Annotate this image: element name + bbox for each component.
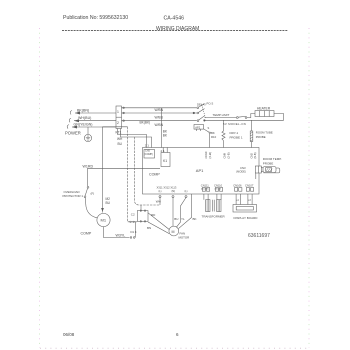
svg-text:BU: BU (106, 201, 111, 205)
svg-text:HEATER: HEATER (257, 106, 271, 110)
svg-text:CN3: CN3 (240, 166, 246, 170)
svg-text:(BK-W): (BK-W) (215, 188, 222, 190)
svg-text:CN2: CN2 (249, 153, 253, 159)
svg-text:M1: M1 (101, 218, 107, 223)
svg-text:WH: WH (156, 200, 161, 204)
svg-text:M: M (172, 230, 175, 234)
svg-text:W1RD: W1RD (83, 164, 94, 168)
svg-text:AP2: AP2 (195, 125, 200, 129)
svg-text:COMP: COMP (81, 232, 92, 236)
svg-text:RD: RD (151, 213, 156, 217)
svg-text:2 1: 2 1 (145, 144, 150, 148)
svg-text:MOTOR: MOTOR (179, 236, 190, 240)
svg-text:BK: BK (163, 134, 168, 138)
svg-text:S: S (208, 126, 210, 130)
svg-text:(L): (L) (185, 190, 188, 193)
svg-text:CN110: CN110 (214, 184, 223, 188)
svg-text:(F): (F) (91, 192, 95, 196)
svg-text:CN111: CN111 (201, 184, 209, 188)
svg-text:06/08: 06/08 (63, 332, 75, 337)
svg-text:AP1: AP1 (196, 168, 204, 173)
svg-text:DISPLAY BOARD: DISPLAY BOARD (234, 216, 259, 220)
svg-text:R10: R10 (211, 135, 217, 139)
svg-text:KT1: KT1 (116, 131, 122, 135)
svg-text:CN106: CN106 (233, 184, 242, 188)
svg-text:CN107: CN107 (245, 184, 254, 188)
svg-text:L3: L3 (248, 199, 251, 202)
svg-text:Publication No: 5995632130: Publication No: 5995632130 (63, 15, 128, 21)
svg-text:BK: BK (193, 217, 197, 221)
svg-text:6: 6 (176, 332, 179, 337)
svg-text:CN9: CN9 (223, 153, 227, 159)
svg-text:W/BN: W/BN (155, 123, 164, 127)
svg-text:K1: K1 (163, 159, 167, 163)
svg-text:5V MODEL-ON: 5V MODEL-ON (223, 122, 246, 126)
svg-text:TRANSFORMER: TRANSFORMER (202, 215, 226, 219)
svg-text:DELAY: DELAY (197, 102, 206, 106)
svg-text:PROTECTOR 1: PROTECTOR 1 (63, 194, 84, 198)
svg-text:CA-4546: CA-4546 (164, 16, 185, 22)
svg-text:BK(BN): BK(BN) (77, 109, 89, 113)
svg-text:M2: M2 (106, 197, 111, 201)
svg-text:BU: BU (174, 217, 178, 221)
svg-text:BN: BN (147, 226, 151, 230)
svg-text:PROBE: PROBE (263, 161, 274, 165)
svg-text:BU: BU (118, 142, 123, 146)
svg-text:PO.S: PO.S (207, 101, 214, 105)
svg-text:W3YL: W3YL (116, 233, 126, 237)
svg-text:(BU-BR): (BU-BR) (201, 188, 209, 190)
svg-text:(2-B): (2-B) (226, 152, 230, 158)
svg-text:YL: YL (181, 217, 185, 221)
svg-text:L4: L4 (236, 199, 239, 202)
svg-text:PROBE 1: PROBE 1 (230, 135, 243, 139)
svg-text:BK(BK): BK(BK) (140, 121, 151, 125)
svg-text:63611697: 63611697 (248, 233, 270, 239)
svg-text:2 1: 2 1 (161, 149, 166, 153)
svg-text:1: 1 (117, 110, 119, 114)
svg-text:(M): (M) (172, 190, 176, 193)
svg-text:COMP: COMP (149, 173, 160, 177)
svg-text:(4-M): (4-M) (208, 152, 212, 159)
svg-text:(9-B): (9-B) (253, 152, 257, 158)
svg-text:TEMP LIMIT: TEMP LIMIT (213, 113, 230, 117)
svg-text:WIRING DIAGRAM: WIRING DIAGRAM (156, 26, 199, 32)
svg-text:2: 2 (117, 121, 119, 125)
svg-text:D1 4: D1 4 (131, 230, 137, 234)
svg-text:X311 X312 X113: X311 X312 X113 (157, 185, 177, 189)
svg-text:C2: C2 (131, 213, 135, 217)
svg-text:W/BU: W/BU (155, 116, 164, 120)
svg-text:W/BN: W/BN (155, 108, 164, 112)
svg-text:WH: WH (117, 137, 123, 141)
svg-text:CN10: CN10 (204, 151, 208, 158)
svg-text:POWER: POWER (65, 131, 81, 136)
svg-text:(MODE): (MODE) (236, 170, 246, 174)
svg-text:(COMP): (COMP) (144, 153, 153, 156)
svg-text:GN(YE/GN): GN(YE/GN) (74, 123, 93, 127)
svg-text:(L): (L) (159, 190, 162, 193)
svg-text:WH(BU): WH(BU) (78, 116, 91, 120)
svg-text:PROBE: PROBE (256, 135, 266, 139)
